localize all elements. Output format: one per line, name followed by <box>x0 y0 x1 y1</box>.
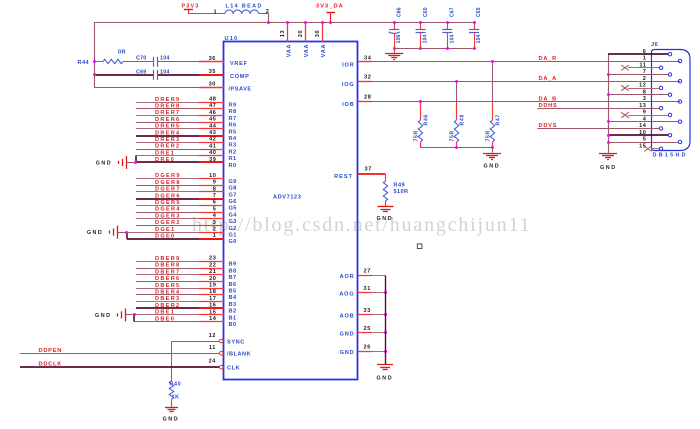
wire net DDPEN <box>20 353 219 355</box>
svg-text:VAA: VAA <box>321 44 327 58</box>
svg-text:http://blog.csdn.net/huangchij: http://blog.csdn.net/huangchijun11 <box>192 214 531 236</box>
net label DBE1 <box>155 310 175 316</box>
svg-text:VAA: VAA <box>286 44 292 58</box>
svg-text:5: 5 <box>643 137 647 143</box>
svg-text:DGE1: DGE1 <box>155 227 175 233</box>
svg-text:GND: GND <box>95 313 111 319</box>
net label DDCLK <box>39 361 63 367</box>
svg-text:R8: R8 <box>229 109 237 115</box>
svg-text:75R: 75R <box>486 130 492 141</box>
svg-text:44: 44 <box>209 123 217 129</box>
pin name R9 <box>229 103 237 109</box>
pin number 2 <box>213 227 217 233</box>
pin name G9 <box>229 179 237 185</box>
net label DGER5 <box>155 200 181 206</box>
svg-text:GND: GND <box>87 230 103 236</box>
resistor R48 75R <box>450 80 466 147</box>
pin number 41 <box>209 143 216 149</box>
net label DGER6 <box>155 193 181 199</box>
svg-text:3: 3 <box>643 96 647 102</box>
wire REST to R49 <box>358 173 386 175</box>
pin number 17 <box>209 296 216 302</box>
wire signal DGER3 pin 4 <box>136 218 224 220</box>
ground symbol for DR LSBs <box>96 156 137 169</box>
pin name R5 <box>229 129 237 135</box>
svg-text:9: 9 <box>643 110 647 116</box>
svg-text:C70: C70 <box>136 56 147 62</box>
svg-text:G4: G4 <box>229 212 238 218</box>
svg-text:AOB: AOB <box>340 314 355 320</box>
svg-text:ADV7123: ADV7123 <box>273 195 301 201</box>
svg-text:IOB: IOB <box>342 102 354 108</box>
pin /PSAVE 30 <box>199 82 252 93</box>
net label DRER8 <box>155 104 180 110</box>
svg-text:R44: R44 <box>78 60 90 66</box>
svg-text:20: 20 <box>209 276 216 282</box>
pin COMP 35 <box>199 69 250 80</box>
net label DBER9 <box>155 256 180 262</box>
red data group DRER <box>96 97 237 169</box>
pin name B6 <box>229 282 237 288</box>
wire analog ground bus <box>385 275 387 364</box>
pin name R1 <box>229 156 237 162</box>
net label DGER9 <box>155 173 181 179</box>
svg-text:1K: 1K <box>172 395 180 401</box>
pin number 8 <box>213 186 217 192</box>
pin number 15 <box>209 309 216 315</box>
pin number 39 <box>209 157 216 163</box>
net label DGER7 <box>155 187 181 193</box>
connector pin 5 <box>607 137 682 144</box>
svg-text:DGER7: DGER7 <box>155 187 181 193</box>
svg-text:C65: C65 <box>476 7 482 17</box>
svg-text:G8: G8 <box>229 186 237 192</box>
pin name G6 <box>229 199 237 205</box>
svg-text:SYNC: SYNC <box>227 339 245 345</box>
svg-text:11: 11 <box>209 345 216 351</box>
pin number 19 <box>209 283 216 289</box>
svg-text:DGER9: DGER9 <box>155 173 181 179</box>
svg-text:DRE0: DRE0 <box>155 157 175 163</box>
power flag P3V3 <box>182 3 200 14</box>
svg-text:23: 23 <box>209 256 216 262</box>
wire signal DBER3 pin 17 <box>136 301 224 303</box>
wire net DDCLK <box>20 366 219 368</box>
svg-text:1: 1 <box>214 10 218 16</box>
pin name B1 <box>229 315 237 321</box>
svg-text:DGER2: DGER2 <box>155 220 181 226</box>
svg-text:R3: R3 <box>229 143 237 149</box>
wire signal DBE1 pin 15 <box>134 314 224 316</box>
connector pin 10 <box>607 130 672 137</box>
svg-text:R5: R5 <box>229 129 237 135</box>
svg-text:DDCLK: DDCLK <box>39 361 63 367</box>
svg-text:2: 2 <box>643 76 647 82</box>
svg-text:DGER8: DGER8 <box>155 180 181 186</box>
svg-text:20: 20 <box>298 30 304 37</box>
svg-text:B6: B6 <box>229 282 237 288</box>
svg-text:DRE1: DRE1 <box>155 150 175 156</box>
net label DGER2 <box>155 220 181 226</box>
wire signal DGER2 pin 3 <box>136 225 224 227</box>
svg-text:21: 21 <box>209 269 216 275</box>
pin name G1 <box>229 233 237 239</box>
svg-text:19: 19 <box>209 283 216 289</box>
svg-text:75R: 75R <box>414 130 420 141</box>
chip U10 ADV7123 body <box>224 42 358 380</box>
pin /BLANK 11 <box>209 345 251 357</box>
connector pin 1 <box>643 56 682 63</box>
wire net DA_R <box>358 61 680 63</box>
pin number 10 <box>209 173 216 179</box>
svg-text:L14 BEAD: L14 BEAD <box>226 3 263 9</box>
svg-text:GND: GND <box>340 350 355 356</box>
svg-text:DDVS: DDVS <box>539 123 558 129</box>
svg-text:/PSAVE: /PSAVE <box>229 86 252 92</box>
svg-text:C66: C66 <box>396 7 402 17</box>
pin name R7 <box>229 116 237 122</box>
capacitor C70 104 <box>136 56 199 67</box>
svg-text:B3: B3 <box>229 302 237 308</box>
svg-text:33: 33 <box>364 308 371 314</box>
svg-text:30: 30 <box>209 82 216 88</box>
pin name B3 <box>229 302 237 308</box>
net label DRER4 <box>155 130 180 136</box>
svg-text:41: 41 <box>209 143 216 149</box>
svg-text:R4: R4 <box>229 136 237 142</box>
pin name G2 <box>229 226 237 232</box>
svg-text:30: 30 <box>315 30 321 37</box>
svg-text:R0: R0 <box>229 163 237 169</box>
pin number 47 <box>209 103 216 109</box>
connector pin 3 <box>643 96 682 103</box>
wire signal DRER8 pin 47 <box>136 108 224 110</box>
net label DBER2 <box>155 303 180 309</box>
pin number 42 <box>209 137 216 143</box>
pin number 46 <box>209 110 216 116</box>
svg-text:16: 16 <box>209 303 216 309</box>
svg-text:DRER8: DRER8 <box>155 104 180 110</box>
net label DRER7 <box>155 110 180 116</box>
svg-text:27: 27 <box>364 269 371 275</box>
svg-text:C60: C60 <box>423 7 429 17</box>
pin name G4 <box>229 212 238 218</box>
svg-text:DRER5: DRER5 <box>155 124 180 130</box>
svg-text:B7: B7 <box>229 275 237 281</box>
ground symbol for termination resistors <box>483 147 501 170</box>
net label DBER8 <box>155 263 180 269</box>
wire signal DBE0 pin 14 <box>134 321 224 323</box>
svg-text:DDHS: DDHS <box>539 103 558 109</box>
wire net DDVS <box>537 128 659 130</box>
svg-text:R9: R9 <box>229 103 237 109</box>
svg-text:B9: B9 <box>229 262 237 268</box>
svg-text:G5: G5 <box>229 206 237 212</box>
pin name G7 <box>229 192 237 198</box>
pin number 14 <box>209 316 217 322</box>
svg-text:R40: R40 <box>170 381 182 387</box>
pin GND 25 <box>340 326 387 338</box>
wire signal DRE1 pin 40 <box>136 155 225 157</box>
chip value ADV7123 <box>273 195 301 201</box>
pin number 20 <box>209 276 216 282</box>
pin VAA 13 <box>280 21 292 57</box>
ground symbol for DG LSBs <box>87 226 128 239</box>
pin number 6 <box>213 200 217 206</box>
connector pin 11 <box>621 62 663 70</box>
svg-text:43: 43 <box>209 130 216 136</box>
pin number 16 <box>209 303 216 309</box>
net label DDPEN <box>39 348 63 354</box>
capacitor C60 104 <box>416 7 429 50</box>
net label DGE0 <box>155 234 175 240</box>
blue data group DBER <box>95 256 237 328</box>
svg-text:DBER8: DBER8 <box>155 263 180 269</box>
pin name R3 <box>229 143 237 149</box>
svg-text:28: 28 <box>364 95 371 101</box>
svg-text:GND: GND <box>377 375 394 381</box>
connector pin 15 <box>639 143 663 151</box>
connector pin 13 <box>639 103 663 110</box>
ground symbol below capacitor bank <box>385 48 403 59</box>
svg-text:U10: U10 <box>225 36 239 42</box>
pin AOG 31 <box>339 286 387 298</box>
svg-text:40: 40 <box>209 150 216 156</box>
wire signal DGER8 pin 9 <box>136 185 224 187</box>
resistor R44 0R <box>78 50 150 66</box>
svg-text:DBER2: DBER2 <box>155 303 180 309</box>
svg-text:DRER4: DRER4 <box>155 130 180 136</box>
svg-text:15: 15 <box>209 309 216 315</box>
pin VREF 36 <box>199 56 248 67</box>
pin name R8 <box>229 109 237 115</box>
svg-text:104: 104 <box>476 34 482 43</box>
svg-text:12: 12 <box>639 83 646 89</box>
wire signal DRER2 pin 41 <box>136 149 224 151</box>
pin number 7 <box>213 193 217 199</box>
ground symbol below analog bus <box>377 365 394 382</box>
net label DRER9 <box>155 97 180 103</box>
svg-text:32: 32 <box>364 74 371 80</box>
pin VAA 30 <box>315 21 327 57</box>
wire signal DGE0 pin 1 <box>127 238 224 240</box>
net label DGE1 <box>155 227 175 233</box>
green data group DGER <box>87 173 237 245</box>
svg-text:104: 104 <box>423 34 429 43</box>
svg-text:G0: G0 <box>229 239 237 245</box>
svg-text:J6: J6 <box>651 42 658 48</box>
wire signal DBER2 pin 16 <box>136 307 224 309</box>
net label DRE1 <box>155 150 175 156</box>
svg-text:DGE0: DGE0 <box>155 234 175 240</box>
svg-text:8: 8 <box>213 186 217 192</box>
svg-text:GND: GND <box>340 332 355 338</box>
svg-text:1: 1 <box>213 233 217 239</box>
svg-text:R49: R49 <box>394 183 405 189</box>
wire signal DRER7 pin 46 <box>136 115 224 117</box>
wire signal DBER4 pin 18 <box>136 294 224 296</box>
pin number 48 <box>209 97 216 103</box>
svg-text:47: 47 <box>209 103 216 109</box>
svg-text:18: 18 <box>209 289 216 295</box>
svg-text:B4: B4 <box>229 295 237 301</box>
svg-text:DA_A: DA_A <box>539 76 557 82</box>
svg-text:24: 24 <box>209 358 217 364</box>
svg-text:DGER4: DGER4 <box>155 207 181 213</box>
wire signal DGER9 pin 10 <box>136 178 224 180</box>
connector pin 9 <box>621 110 672 118</box>
connector pin 2 <box>643 76 682 83</box>
resistor R49 510R <box>383 175 408 207</box>
svg-text:DRER7: DRER7 <box>155 110 180 116</box>
connector pin 8 <box>607 89 672 96</box>
svg-text:42: 42 <box>209 137 216 143</box>
svg-text:GND: GND <box>163 416 180 422</box>
wire capacitor bottom rail <box>394 48 474 50</box>
svg-text:13: 13 <box>639 103 646 109</box>
svg-text:1: 1 <box>643 56 647 62</box>
wire net DA_B <box>358 101 680 103</box>
pin SYNC 12 <box>209 333 245 346</box>
svg-text:37: 37 <box>365 166 372 172</box>
pin IOG 32 <box>342 74 372 88</box>
net label DDVS <box>539 123 558 129</box>
svg-text:6: 6 <box>213 200 217 206</box>
svg-text:B2: B2 <box>229 309 237 315</box>
no-connect square marker <box>417 244 422 249</box>
net label DGER8 <box>155 180 181 186</box>
svg-text:104: 104 <box>449 34 455 43</box>
svg-text:DBER7: DBER7 <box>155 269 180 275</box>
net label DGER3 <box>155 213 181 219</box>
pin name R6 <box>229 123 237 129</box>
net label DBER6 <box>155 276 180 282</box>
svg-text:DGER6: DGER6 <box>155 193 181 199</box>
svg-text:46: 46 <box>209 110 216 116</box>
svg-text:DBER4: DBER4 <box>155 290 180 296</box>
svg-text:DB15HD: DB15HD <box>653 152 688 158</box>
net label DA_B <box>539 96 557 102</box>
wire signal DRER6 pin 45 <box>136 122 224 124</box>
svg-text:DGER5: DGER5 <box>155 200 181 206</box>
svg-text:DDPEN: DDPEN <box>39 348 63 354</box>
svg-text:B0: B0 <box>229 322 237 328</box>
svg-text:4: 4 <box>213 213 217 219</box>
pin AOR 27 <box>340 269 385 281</box>
svg-text:R46: R46 <box>423 114 429 125</box>
svg-text:13: 13 <box>280 30 286 37</box>
svg-text:45: 45 <box>209 117 216 123</box>
pin number 43 <box>209 130 216 136</box>
svg-text:DBER6: DBER6 <box>155 276 180 282</box>
net label DA_A <box>539 76 557 82</box>
svg-text:104: 104 <box>160 56 170 62</box>
connector pin 6 <box>608 49 672 56</box>
power rail 3V3_DA <box>94 22 474 24</box>
svg-text:2: 2 <box>266 9 270 15</box>
svg-text:CLK: CLK <box>227 365 240 371</box>
pin number 44 <box>209 123 217 129</box>
svg-text:G6: G6 <box>229 199 237 205</box>
pin name B8 <box>229 268 237 274</box>
svg-text:GND: GND <box>377 216 394 222</box>
svg-text:R2: R2 <box>229 149 237 155</box>
svg-text:P3V3: P3V3 <box>182 3 200 9</box>
svg-text:DBE0: DBE0 <box>155 316 175 322</box>
pin IOB 28 <box>342 95 372 109</box>
resistor R40 1K <box>169 374 181 407</box>
wire P3V3 to L14 <box>189 13 225 15</box>
svg-text:G3: G3 <box>229 219 237 225</box>
svg-text:DRER9: DRER9 <box>155 97 180 103</box>
connector pin 12 <box>621 83 663 91</box>
svg-text:3V3_DA: 3V3_DA <box>316 3 344 9</box>
ground symbol below R49 <box>377 207 394 223</box>
svg-text:B5: B5 <box>229 289 237 295</box>
pin name R2 <box>229 149 237 155</box>
pin number 1 <box>213 233 217 239</box>
net label DRER6 <box>155 117 180 123</box>
net label DRER3 <box>155 137 180 143</box>
ground symbol below connector bus <box>599 154 617 171</box>
svg-text:5: 5 <box>213 206 217 212</box>
svg-text:DBER5: DBER5 <box>155 283 180 289</box>
pin number 9 <box>213 180 217 186</box>
svg-text:AOG: AOG <box>339 292 354 298</box>
pin name G3 <box>229 219 237 225</box>
chip refdes U10 <box>225 36 239 42</box>
svg-text:3: 3 <box>213 220 217 226</box>
net label DBER7 <box>155 269 180 275</box>
pin number 22 <box>209 262 216 268</box>
svg-text:DGER3: DGER3 <box>155 213 181 219</box>
pin number 45 <box>209 117 216 123</box>
wire SYNC to R40 <box>172 341 220 374</box>
pin number 3 <box>213 220 217 226</box>
svg-text:25: 25 <box>364 326 371 332</box>
svg-text:G9: G9 <box>229 179 237 185</box>
svg-text:35: 35 <box>209 69 216 75</box>
svg-text:G1: G1 <box>229 233 237 239</box>
svg-text:DBER3: DBER3 <box>155 296 180 302</box>
svg-text:39: 39 <box>209 157 216 163</box>
wire connector ground bus <box>608 54 610 153</box>
net label DRER5 <box>155 124 180 130</box>
pin name B5 <box>229 289 237 295</box>
pin name B2 <box>229 309 237 315</box>
svg-text:AOR: AOR <box>340 274 355 280</box>
pin name G5 <box>229 206 237 212</box>
pin number 40 <box>209 150 216 156</box>
svg-text:/BLANK: /BLANK <box>227 352 251 358</box>
pin name B7 <box>229 275 237 281</box>
capacitor C69 104 <box>93 69 199 80</box>
svg-text:31: 31 <box>364 286 371 292</box>
pin number 4 <box>213 213 217 219</box>
pin name B4 <box>229 295 237 301</box>
connector pin 14 <box>639 123 663 130</box>
connector pin 7 <box>607 69 672 76</box>
svg-text:26: 26 <box>364 345 371 351</box>
pin number 21 <box>209 269 216 275</box>
svg-text:12: 12 <box>209 333 216 339</box>
capacitor C67 104 <box>442 7 455 50</box>
pin number 2 of L14 <box>266 9 270 15</box>
wire signal DGER6 pin 7 <box>136 198 224 200</box>
wire signal DRER9 pin 48 <box>136 102 224 104</box>
svg-text:IOR: IOR <box>342 62 354 68</box>
pin number 1 of L14 <box>214 10 218 16</box>
